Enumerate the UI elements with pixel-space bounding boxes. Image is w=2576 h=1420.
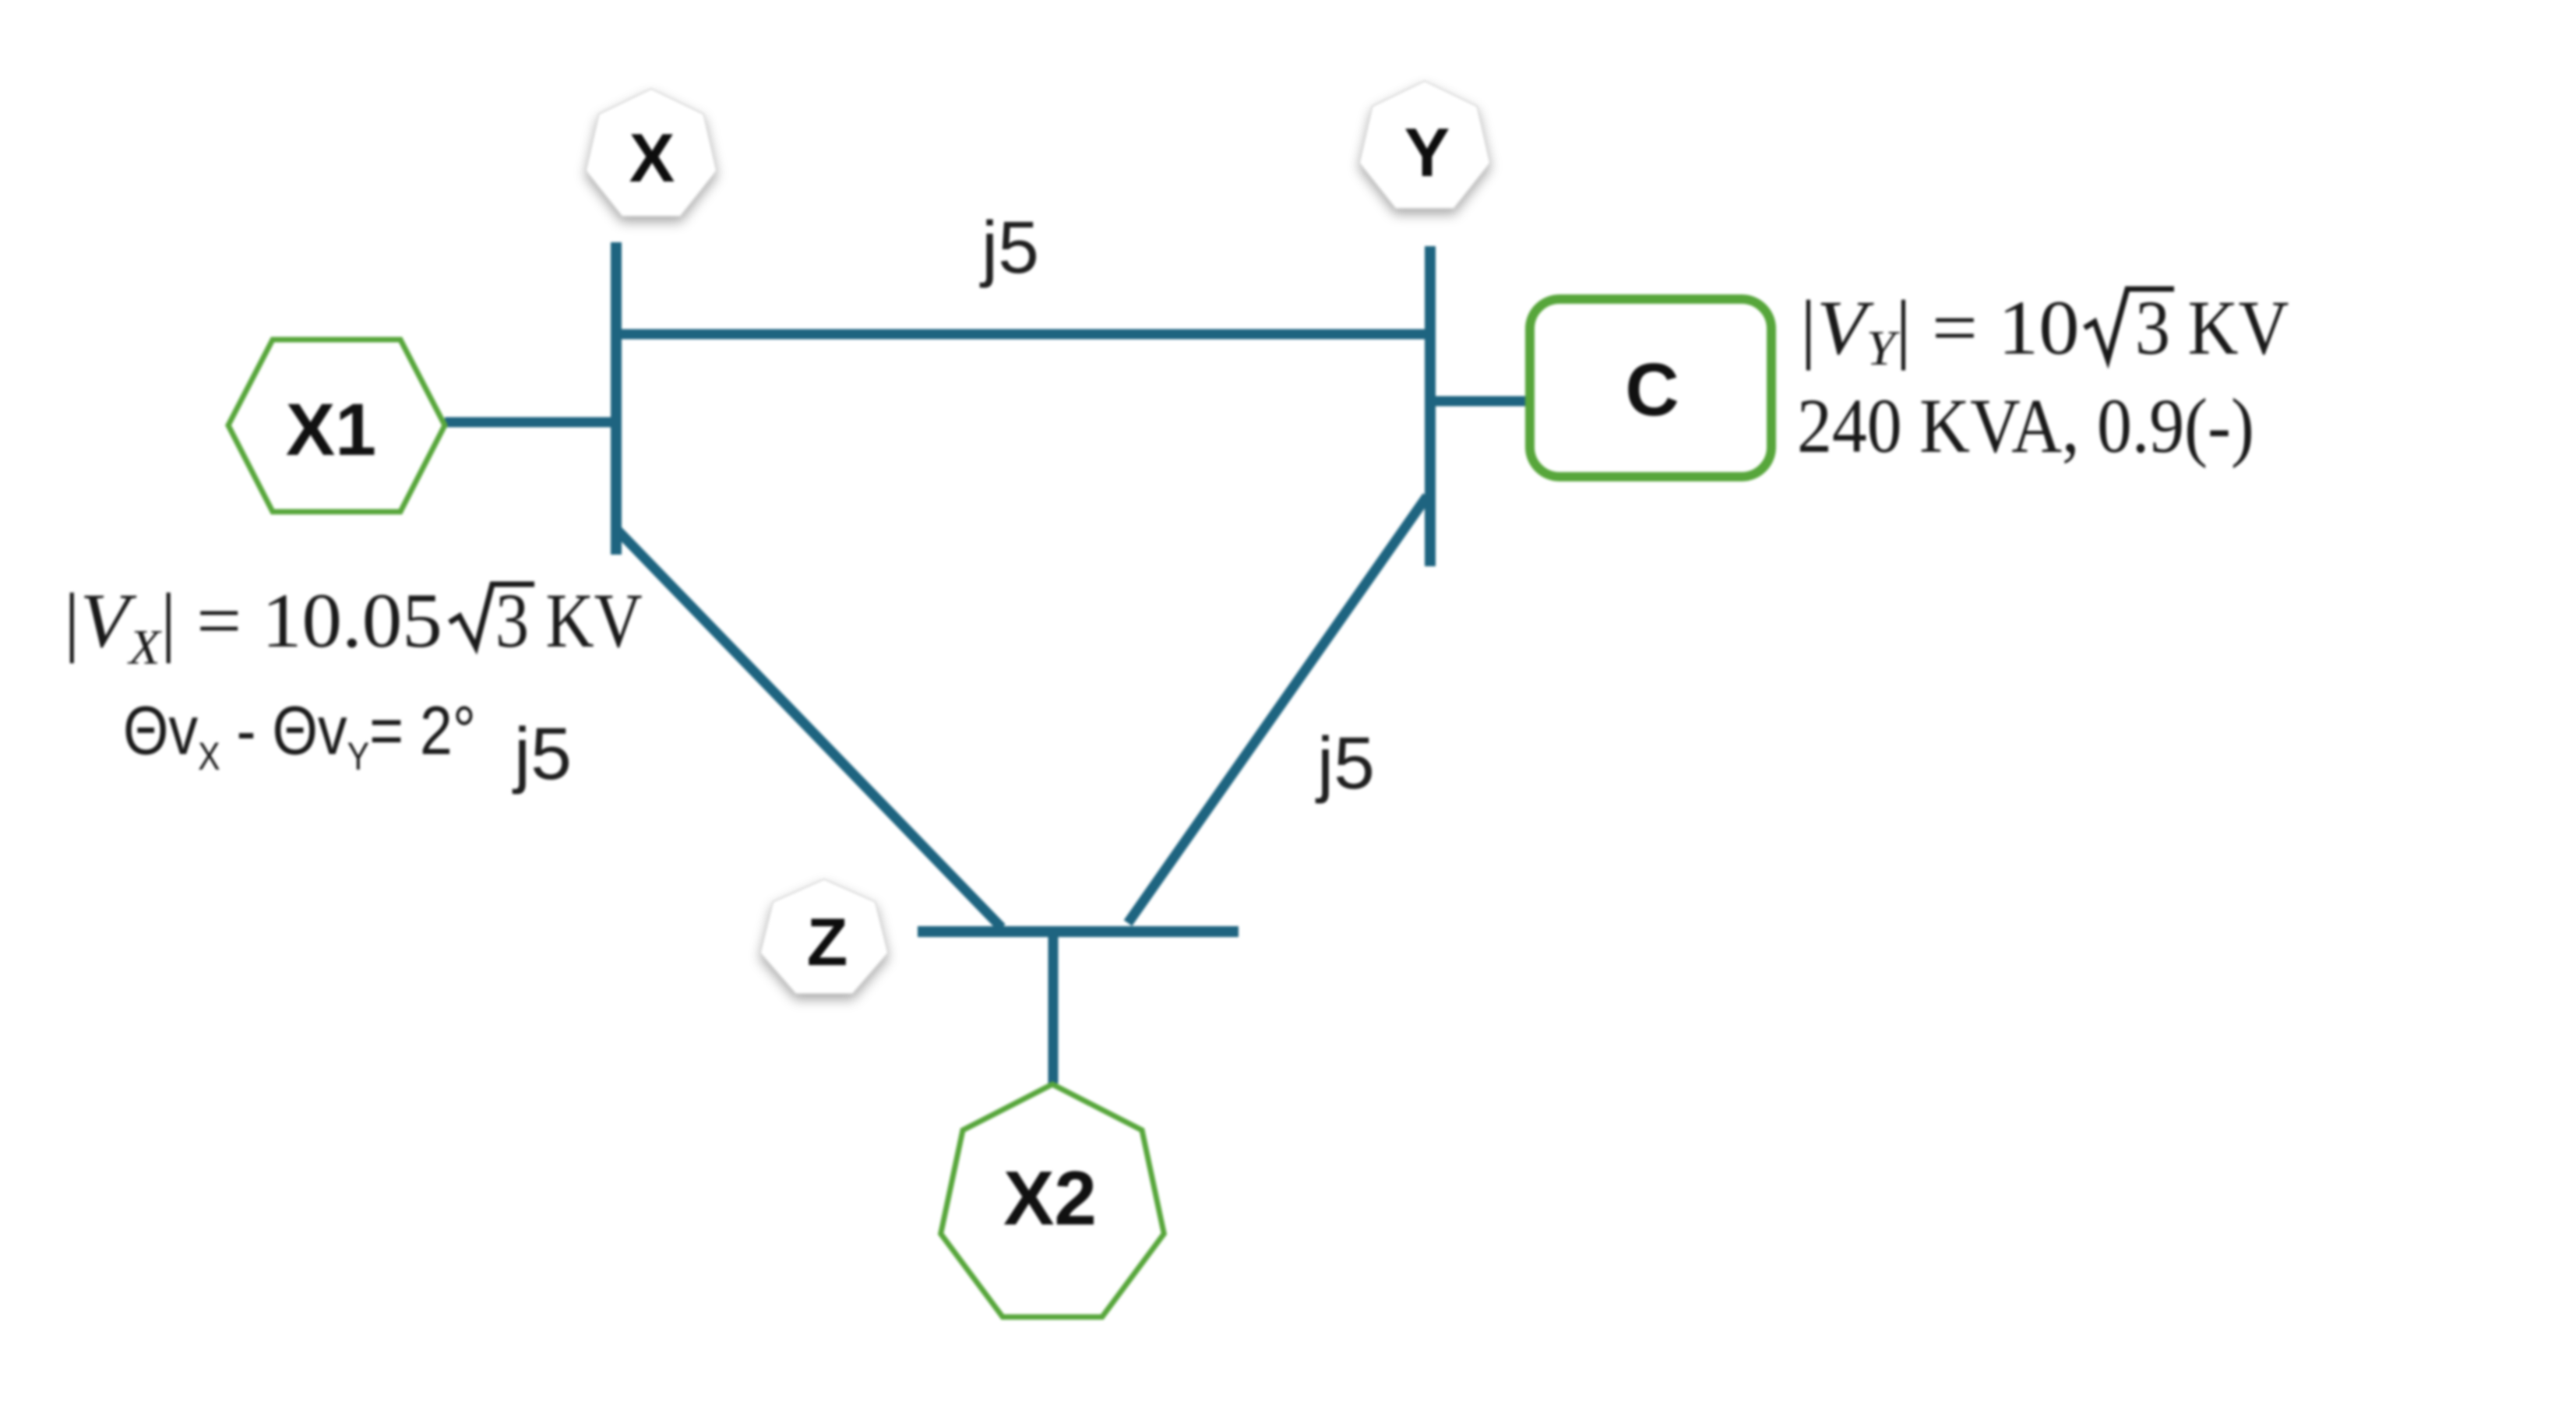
svg-text:C: C (1625, 348, 1679, 432)
wire bus Z to generator X2 (1048, 928, 1059, 1083)
svg-text:ΘvX - ΘvY= 2°: ΘvX - ΘvY= 2° (123, 693, 476, 778)
svg-text:j5: j5 (1315, 722, 1375, 805)
load C (green rounded box) (1530, 299, 1771, 477)
svg-text:3 KV: 3 KV (2135, 284, 2289, 371)
svg-text:X2: X2 (1003, 1155, 1097, 1241)
node badge Z (760, 879, 888, 994)
label load C rating (1797, 382, 2254, 470)
label VX equation (64, 577, 643, 675)
wire bus Y to load C (1430, 396, 1531, 407)
svg-text:|VY| = 10: |VY| = 10 (1800, 285, 2080, 376)
radical sign of sqrt(3), left (449, 584, 534, 647)
wire generator X1 to bus X (445, 418, 616, 428)
label theta equation (123, 693, 476, 778)
svg-text:3 KV: 3 KV (495, 578, 643, 664)
bus X (vertical busbar) (611, 242, 622, 555)
svg-text:j5: j5 (512, 713, 572, 795)
node badge Y (1359, 81, 1490, 209)
generator X2 (green heptagon) (941, 1084, 1165, 1317)
bus Z (horizontal busbar) (918, 926, 1239, 937)
generator X1 (green hexagon) (228, 340, 445, 512)
label VY equation (1800, 284, 2289, 376)
wire bus X to bus Z (left diagonal) (618, 530, 1002, 928)
wire bus X to bus Y (line X-Y) (616, 329, 1430, 340)
svg-text:Y: Y (1404, 114, 1450, 191)
node badge X (586, 89, 717, 217)
radical sign of sqrt(3), right (2084, 289, 2174, 360)
svg-text:240 KVA, 0.9(-): 240 KVA, 0.9(-) (1797, 382, 2254, 470)
svg-text:|VX| = 10.05: |VX| = 10.05 (64, 577, 442, 675)
bus Y (vertical busbar) (1425, 246, 1436, 566)
svg-text:X1: X1 (286, 389, 376, 471)
wire bus Y to bus Z (right diagonal) (1128, 496, 1427, 923)
svg-text:Z: Z (807, 905, 848, 980)
svg-text:X: X (629, 119, 675, 196)
svg-text:j5: j5 (979, 206, 1039, 289)
